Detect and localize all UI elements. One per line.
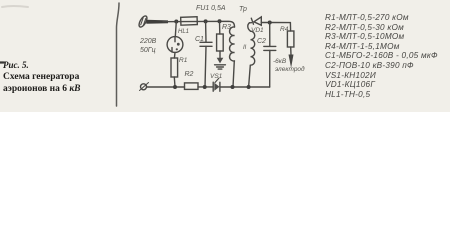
resistor R4 <box>287 23 294 55</box>
parts list <box>325 13 409 22</box>
output electrode arrow <box>289 55 294 69</box>
node: junction HL1 on top rail <box>174 20 178 24</box>
gate diode of VS1 (triangle onto bars) <box>215 58 226 83</box>
label R3 <box>222 24 231 31</box>
label Тр <box>239 6 247 13</box>
label C2 <box>257 38 266 45</box>
neon lamp HL1 <box>167 22 183 59</box>
wire: bottom rail left <box>147 86 185 88</box>
label HL1 <box>178 29 189 35</box>
fuse FU1 <box>181 17 198 25</box>
resistor R2 <box>185 83 199 90</box>
label winding II <box>243 45 246 51</box>
resistor R1 <box>171 58 178 87</box>
caption line 3 <box>3 84 81 94</box>
label R2 <box>185 71 194 78</box>
capacitor C1 <box>200 21 212 87</box>
wire: bottom rail right of VS1 <box>220 86 270 88</box>
transformer T primary winding I <box>230 27 235 87</box>
node: junction C1 on top rail <box>204 19 208 23</box>
label VD1 <box>251 27 264 34</box>
label VS1 <box>210 73 222 80</box>
caption line 2 <box>3 72 79 82</box>
resistor R3 <box>217 21 224 57</box>
transformer T secondary winding II <box>248 23 255 87</box>
wire: top rail <box>163 21 235 27</box>
mains plug top prong <box>137 15 168 29</box>
wire: top right rail <box>270 22 291 24</box>
column divider rule <box>117 3 120 106</box>
node: junction C2/R4 <box>268 21 272 25</box>
wire: bottom rail mid <box>198 86 213 88</box>
label FU1 <box>196 5 226 12</box>
label R1 <box>179 57 187 64</box>
label R4 <box>280 26 288 33</box>
caption Рис. 5. <box>3 60 29 70</box>
diode VD1 <box>249 17 269 25</box>
capacitor C2 <box>264 23 276 88</box>
node: primary bottom junction <box>231 85 235 89</box>
label C1 <box>195 36 204 43</box>
smudge top-left <box>2 5 28 8</box>
node: junction R1 bottom <box>173 85 177 89</box>
node: junction C1 bottom <box>203 85 207 89</box>
label winding I <box>229 53 231 59</box>
label электрод <box>275 66 305 73</box>
node: secondary bottom junction <box>247 85 251 89</box>
dinistor VS1 <box>213 82 220 91</box>
schematic drawing <box>0 0 450 112</box>
label 220В 50Гц <box>140 38 156 55</box>
node: junction R3 on top rail <box>218 19 222 23</box>
mains plug bottom prong <box>140 83 149 91</box>
caption dash <box>0 61 4 63</box>
label -6кВ <box>273 58 286 65</box>
